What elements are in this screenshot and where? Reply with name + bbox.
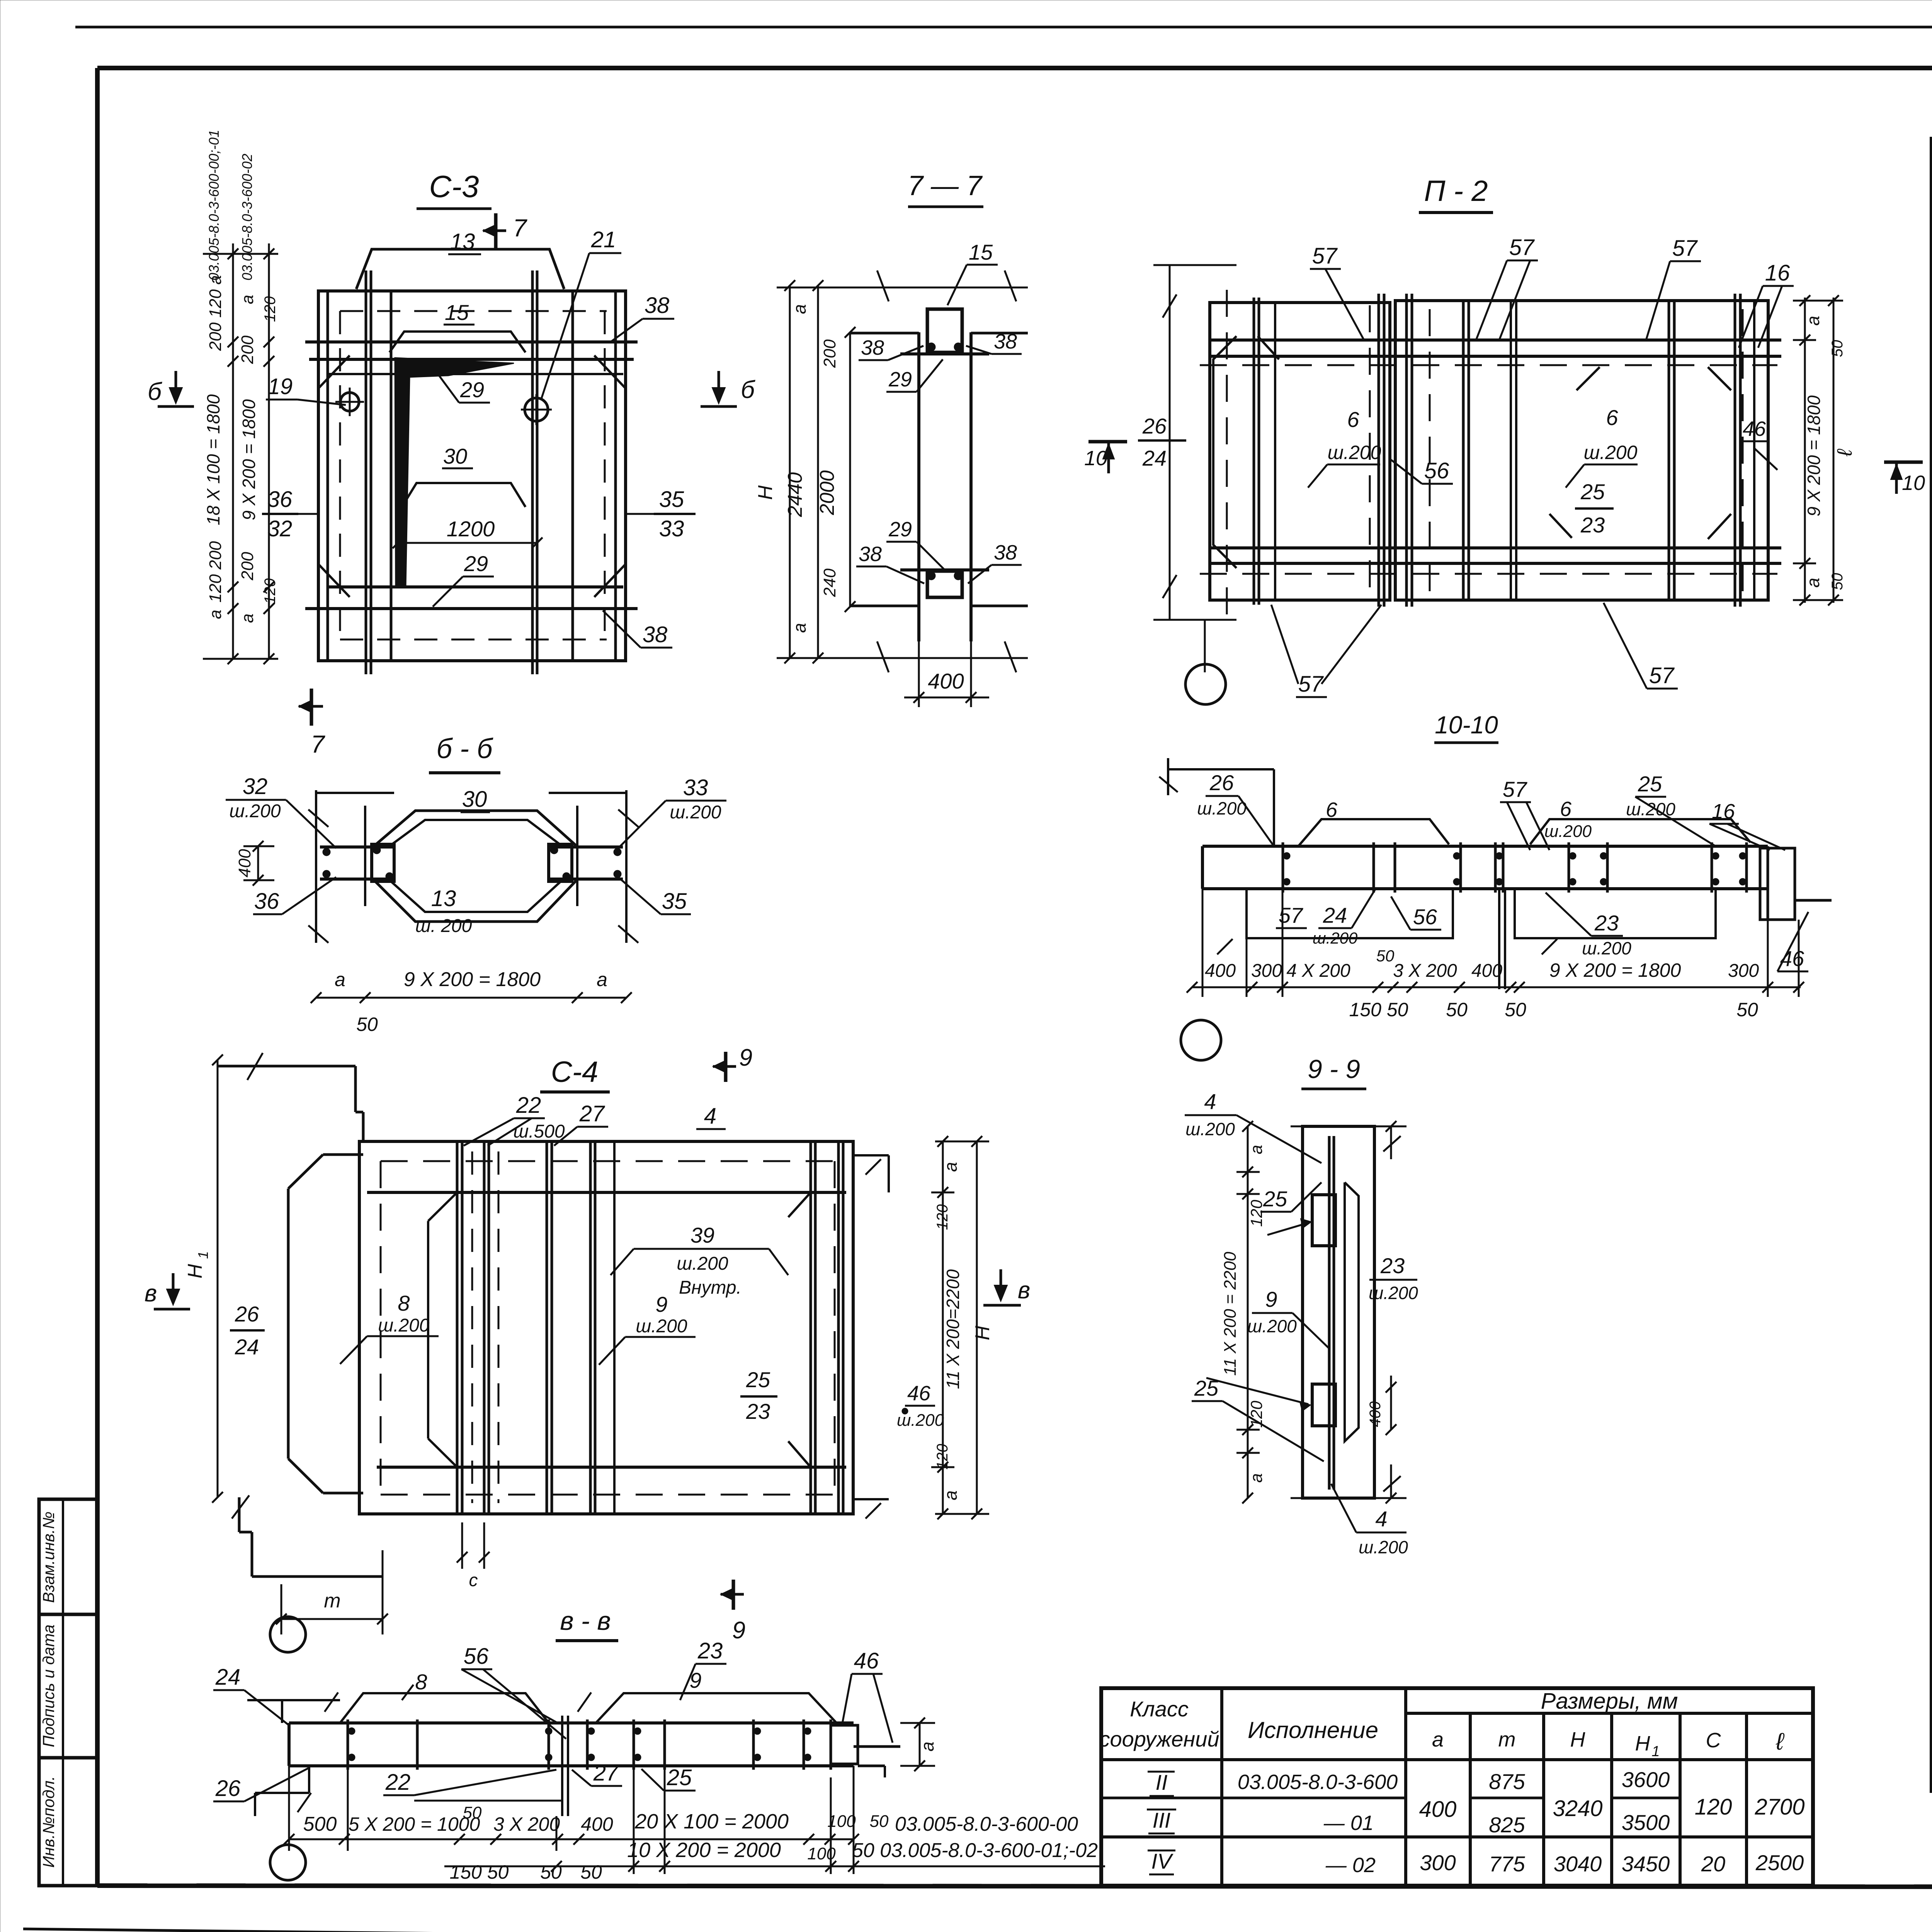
svg-text:3240: 3240 <box>1553 1796 1602 1821</box>
svg-text:29: 29 <box>888 368 912 391</box>
C-4 H1 dim line <box>184 1054 223 1503</box>
svg-text:2000: 2000 <box>816 470 838 515</box>
8-8 band outline <box>289 1723 854 1766</box>
7-7 left dim line H <box>754 280 795 663</box>
8-8 pos label 46 <box>842 1648 893 1743</box>
C-4 section mark 9 top <box>713 1044 752 1082</box>
svg-text:а: а <box>940 1162 961 1172</box>
10-10 vertical rebars <box>1283 842 1747 893</box>
9-9 right dim bottom <box>1374 1464 1406 1503</box>
svg-text:10: 10 <box>1084 447 1107 470</box>
svg-text:35: 35 <box>662 889 687 914</box>
8-8 dim line 1 texts <box>303 1803 1078 1835</box>
P-2 pos label 46 right <box>1740 417 1777 470</box>
svg-text:200: 200 <box>238 552 257 581</box>
P-2 bottom circle <box>1185 664 1226 704</box>
C-3 pos label 21 <box>541 227 621 400</box>
view P-2 title <box>1419 175 1493 213</box>
svg-text:а: а <box>789 623 810 633</box>
svg-text:ш.200: ш.200 <box>378 1315 430 1336</box>
view C-4 title <box>540 1056 610 1092</box>
svg-text:57: 57 <box>1509 235 1535 260</box>
C-3 pos label 29 upper <box>433 367 490 403</box>
svg-text:57: 57 <box>1312 243 1338 269</box>
svg-text:29: 29 <box>460 378 484 402</box>
svg-text:50: 50 <box>540 1861 562 1883</box>
10-10 label 46 <box>1777 912 1808 971</box>
C-4 bottom right step <box>853 1499 889 1519</box>
svg-text:15: 15 <box>969 240 993 264</box>
svg-text:1200: 1200 <box>447 517 495 541</box>
svg-text:2440: 2440 <box>784 472 806 517</box>
svg-text:50: 50 <box>356 1014 378 1035</box>
svg-text:25: 25 <box>1580 480 1605 504</box>
svg-text:27: 27 <box>579 1101 605 1126</box>
C-4 left top staircase <box>218 1053 363 1143</box>
C-4 left end wall hexagon <box>288 1155 363 1493</box>
svg-text:38: 38 <box>859 543 882 566</box>
10-10 left vertical chain <box>1202 889 1799 997</box>
P-2 pos label 57 bottom left <box>1271 605 1381 697</box>
9-9 label 9 sh200 <box>1247 1287 1329 1349</box>
svg-text:50 03.005-8.0-3-600-01;-02: 50 03.005-8.0-3-600-01;-02 <box>852 1839 1098 1862</box>
C-3 side wall inner verticals <box>328 291 616 661</box>
svg-text:19: 19 <box>268 374 293 399</box>
svg-text:50: 50 <box>1829 340 1846 357</box>
svg-text:3 Х 200: 3 Х 200 <box>493 1813 560 1835</box>
10-10 mid labels 57 24 56 <box>1276 889 1441 947</box>
svg-text:24: 24 <box>1323 903 1347 927</box>
svg-text:25: 25 <box>667 1765 692 1790</box>
svg-text:38: 38 <box>994 330 1017 353</box>
svg-text:3500: 3500 <box>1622 1810 1670 1835</box>
C-4 vertical rebar group left <box>457 1141 489 1514</box>
svg-text:ш.200: ш.200 <box>1313 929 1358 947</box>
P-2 left dashed verticals <box>1227 290 1370 614</box>
C-3 pos label 29 lower <box>433 551 494 607</box>
C-3 fraction 36/32 <box>262 487 318 541</box>
size table row III <box>1147 1808 1670 1837</box>
10-10 top-left connection <box>1159 758 1274 846</box>
svg-text:Н: Н <box>1635 1732 1651 1755</box>
C-4 pos label 4 top <box>696 1104 726 1129</box>
6-6 central hexagon 13 bottom <box>373 879 578 922</box>
svg-text:8: 8 <box>398 1291 410 1315</box>
svg-text:С-3: С-3 <box>429 169 479 204</box>
C-4 label 8 sh200 <box>340 1291 439 1364</box>
svg-text:120 200: 120 200 <box>206 541 225 603</box>
svg-text:30: 30 <box>462 787 487 812</box>
view 8-8 title <box>556 1606 618 1641</box>
svg-text:26: 26 <box>1142 414 1167 438</box>
9-9 label 4 sh200 top <box>1185 1089 1321 1163</box>
P-2 section mark 10 left <box>1084 442 1127 473</box>
size table row IV <box>1148 1849 1804 1877</box>
svg-text:ш.200: ш.200 <box>1247 1316 1297 1336</box>
svg-text:1: 1 <box>195 1251 211 1259</box>
8-8 pos label 27 <box>572 1760 622 1786</box>
svg-text:29: 29 <box>888 518 912 541</box>
svg-text:ш.200: ш.200 <box>677 1253 728 1274</box>
svg-text:ш.200: ш.200 <box>1185 1119 1235 1139</box>
8-8 dim line 2 texts <box>450 1838 1098 1883</box>
svg-text:20 Х 100 = 2000: 20 Х 100 = 2000 <box>634 1810 789 1833</box>
svg-text:38: 38 <box>861 336 884 359</box>
P-2 right slab rect <box>1395 301 1768 600</box>
C-4 left chamfer hexagon <box>428 1192 457 1467</box>
7-7 bottom dim line with breaks <box>777 641 1028 672</box>
P-2 section mark 10 right <box>1884 462 1925 495</box>
6-6 left broken verticals <box>308 790 365 943</box>
svg-text:39: 39 <box>690 1223 714 1247</box>
9-9 label 4 sh200 bottom <box>1331 1484 1408 1557</box>
P-2 pos label 57 top2 <box>1476 235 1538 340</box>
svg-text:9 - 9: 9 - 9 <box>1308 1054 1360 1084</box>
6-6 pos label 36 <box>253 877 336 914</box>
svg-text:а: а <box>238 295 257 304</box>
C-3 dashed inner rect <box>340 311 607 639</box>
svg-text:775: 775 <box>1489 1852 1525 1876</box>
svg-text:400: 400 <box>1367 1401 1384 1427</box>
C-4 vertical dashed companions <box>472 1151 498 1503</box>
svg-text:50: 50 <box>1736 999 1758 1020</box>
svg-text:120: 120 <box>1695 1794 1732 1820</box>
left margin label Взам.инв.№ <box>39 1512 58 1603</box>
view C-3 title <box>417 169 492 209</box>
10-10 dim texts <box>1205 947 1759 981</box>
6-6 right broken verticals <box>577 790 638 943</box>
6-6 central hexagon 30 top <box>373 811 578 847</box>
svg-text:240: 240 <box>820 568 839 597</box>
8-8 trapezoid 9 <box>596 1668 837 1723</box>
svg-text:46: 46 <box>907 1382 931 1405</box>
7-7 pos label 38 tr <box>966 330 1022 354</box>
svg-text:в: в <box>1018 1277 1030 1304</box>
C-4 fraction 26/24 <box>230 1302 265 1359</box>
6-6 right bars <box>549 844 623 881</box>
C-3 vertical rebar pair left <box>366 270 391 674</box>
9-9 label 25 bottom <box>1192 1376 1324 1461</box>
svg-text:20: 20 <box>1701 1852 1725 1876</box>
C-3 plate circle 21 <box>521 394 552 425</box>
9-9 right dim top <box>1374 1121 1406 1159</box>
view 7-7 title <box>908 170 983 207</box>
svg-text:150 50: 150 50 <box>450 1861 509 1883</box>
svg-text:50: 50 <box>1829 573 1846 590</box>
svg-text:9: 9 <box>739 1044 752 1071</box>
svg-text:9 Х 200 = 1800: 9 Х 200 = 1800 <box>1549 959 1681 981</box>
svg-text:03.005-8.0-3-600-00: 03.005-8.0-3-600-00 <box>895 1813 1078 1835</box>
7-7 pos label 38 br <box>968 541 1022 583</box>
svg-text:Н: Н <box>1570 1728 1586 1751</box>
svg-text:03.005-8.0-3-600: 03.005-8.0-3-600 <box>1238 1770 1398 1794</box>
C-3 left dim chain ticks <box>228 248 274 664</box>
svg-text:03.005-8.0-3-600-02: 03.005-8.0-3-600-02 <box>239 154 255 281</box>
svg-text:16: 16 <box>1765 260 1790 286</box>
6-6 bottom dim line <box>311 968 632 1035</box>
C-3 pos label 19 <box>266 374 346 405</box>
svg-text:Класс: Класс <box>1130 1697 1189 1721</box>
svg-text:в - в: в - в <box>560 1606 611 1636</box>
P-2 fraction 26/24 left <box>1138 414 1186 470</box>
P-2 pos label 57 bottom right <box>1604 603 1678 689</box>
8-8 pos label 24 <box>213 1665 289 1725</box>
svg-text:46: 46 <box>854 1648 879 1673</box>
svg-text:а: а <box>1247 1145 1266 1154</box>
C-4 label 46 sh200 <box>897 1382 944 1430</box>
7-7 pos label 29 top <box>886 359 943 392</box>
8-8 bottom circle <box>270 1845 306 1880</box>
P-2 dashed verticals right rect <box>1430 309 1743 595</box>
svg-text:6: 6 <box>1347 407 1359 432</box>
svg-text:8: 8 <box>415 1670 427 1694</box>
C-3 left rotated doc number col 2 <box>239 154 255 281</box>
C-4 left bottom staircase <box>232 1495 383 1577</box>
svg-text:ш.200: ш.200 <box>636 1316 687 1337</box>
svg-text:3040: 3040 <box>1554 1852 1602 1876</box>
svg-text:120: 120 <box>262 578 279 604</box>
svg-text:22: 22 <box>516 1093 541 1118</box>
svg-text:50: 50 <box>580 1861 602 1883</box>
svg-text:56: 56 <box>1413 905 1437 929</box>
svg-text:ш.200: ш.200 <box>1584 442 1638 463</box>
svg-text:ш.200: ш.200 <box>229 801 281 821</box>
svg-text:ℓ: ℓ <box>1776 1728 1785 1755</box>
svg-text:13: 13 <box>431 886 456 911</box>
svg-text:Н: Н <box>754 485 777 500</box>
view 6-6 title <box>429 733 500 773</box>
svg-text:Подпись и дата: Подпись и дата <box>39 1624 58 1747</box>
8-8 pos label 25 <box>641 1765 696 1791</box>
sheet bottom edge line <box>23 1929 1932 1932</box>
P-2 pos label 16 top <box>1739 260 1794 348</box>
svg-text:50: 50 <box>870 1812 889 1831</box>
svg-text:7: 7 <box>311 730 325 758</box>
C-3 pos label 38 top right <box>611 293 674 342</box>
C-3 left dim chain lines <box>203 243 278 659</box>
8-8 pos label 26 <box>213 1768 309 1801</box>
svg-text:Исполнение: Исполнение <box>1248 1717 1378 1743</box>
C-4 label 9 sh200 <box>599 1292 696 1365</box>
C-3 pos label 38 bottom right <box>603 611 672 648</box>
svg-text:300: 300 <box>1728 961 1759 981</box>
8-8 pos label 23 <box>680 1638 726 1700</box>
9-9 right slanted bar 23 <box>1345 1182 1359 1441</box>
left margin box column <box>39 1499 97 1886</box>
svg-text:875: 875 <box>1489 1769 1525 1794</box>
size table row II <box>1148 1767 1670 1796</box>
C-4 top right step <box>853 1155 889 1192</box>
C-4 dashed inner rect <box>381 1161 835 1495</box>
8-8 break marks band <box>298 1692 591 1812</box>
svg-text:16: 16 <box>1712 800 1735 823</box>
svg-text:ш.200: ш.200 <box>1582 938 1631 958</box>
svg-text:400: 400 <box>1205 961 1236 981</box>
8-8 vertical rebars <box>348 1719 831 1770</box>
svg-text:120: 120 <box>934 1204 951 1230</box>
P-2 top rebar band <box>1211 340 1781 356</box>
7-7 pos label 29 bottom <box>886 518 947 572</box>
P-2 fraction 25/23 <box>1575 480 1614 537</box>
P-2 right dim chain <box>1793 295 1843 605</box>
svg-text:7 — 7: 7 — 7 <box>908 170 983 201</box>
svg-text:Взам.инв.№: Взам.инв.№ <box>39 1512 58 1603</box>
P-2 pos label 57 top1 <box>1310 243 1364 340</box>
8-8 right end detail <box>831 1725 900 1777</box>
P-2 right dim texts <box>1803 316 1856 590</box>
10-10 label 23 sh200 <box>1546 893 1631 958</box>
P-2 left slab rect <box>1210 303 1390 600</box>
svg-text:26: 26 <box>1209 770 1234 795</box>
C-3 section mark b right <box>701 371 755 406</box>
svg-text:5 Х 200 = 1000: 5 Х 200 = 1000 <box>349 1813 480 1835</box>
7-7 slab edge lines top <box>850 332 1028 335</box>
svg-text:38: 38 <box>645 293 670 318</box>
svg-text:29: 29 <box>464 551 488 576</box>
svg-text:а: а <box>1247 1473 1266 1483</box>
P-2 top dashed line <box>1200 364 1777 366</box>
svg-text:а: а <box>206 610 225 619</box>
svg-text:III: III <box>1153 1808 1171 1832</box>
10-10 top labels 57 6 25 16 <box>1500 772 1785 850</box>
9-9 bottom hatch box <box>1312 1384 1335 1426</box>
svg-text:23: 23 <box>1380 1253 1405 1278</box>
svg-text:IV: IV <box>1151 1849 1174 1873</box>
P-2 label 6 sh200 left <box>1308 407 1381 488</box>
view 9-9 title <box>1301 1054 1366 1089</box>
P-2 verticals group 1 <box>1254 298 1275 605</box>
svg-text:36: 36 <box>267 487 293 512</box>
svg-text:100: 100 <box>827 1812 856 1831</box>
P-2 bottom rebar band <box>1211 548 1781 563</box>
svg-text:а: а <box>917 1742 937 1752</box>
svg-text:38: 38 <box>994 541 1017 564</box>
P-2 left broken dim line <box>1153 265 1236 672</box>
svg-text:4 Х 200: 4 Х 200 <box>1286 961 1350 981</box>
svg-text:ш. 200: ш. 200 <box>415 916 472 936</box>
svg-text:57: 57 <box>1298 672 1324 697</box>
8-8 dim line 1 <box>284 1834 859 1845</box>
svg-text:6: 6 <box>1326 798 1338 821</box>
svg-text:б - б: б - б <box>437 733 493 764</box>
svg-text:а: а <box>335 969 345 990</box>
6-6 pos label 33 sh200 <box>618 775 726 848</box>
svg-text:а: а <box>940 1490 961 1500</box>
svg-text:9: 9 <box>1265 1287 1277 1311</box>
svg-text:300: 300 <box>1251 961 1282 981</box>
7-7 dim labels bottom <box>789 568 839 633</box>
svg-text:сооружений: сооружений <box>1099 1727 1219 1751</box>
6-6 pos label 35 <box>618 877 691 914</box>
10-10 break mark left <box>1217 939 1557 954</box>
svg-text:23: 23 <box>746 1399 770 1423</box>
10-10 bottom circle <box>1181 1020 1221 1060</box>
size table sub headers <box>1432 1728 1785 1760</box>
C-3 section mark 7 bottom <box>299 689 325 758</box>
C-3 outer outline <box>318 291 626 661</box>
10-10 label 26 sh200 <box>1197 770 1274 846</box>
svg-text:100: 100 <box>807 1844 836 1863</box>
10-10 top chamfered outline 6 <box>1298 798 1449 846</box>
svg-text:26: 26 <box>235 1302 259 1326</box>
svg-text:03.005-8.0-3-600-00;-01: 03.005-8.0-3-600-00;-01 <box>206 130 222 281</box>
svg-text:57: 57 <box>1503 777 1527 801</box>
svg-text:С: С <box>1706 1729 1721 1752</box>
svg-text:а: а <box>789 304 810 314</box>
C-4 inner horizontals <box>367 1192 846 1467</box>
6-6 dim 400 left <box>235 841 274 886</box>
C-4 right dim chains <box>931 1136 989 1519</box>
svg-text:а: а <box>597 969 607 990</box>
svg-text:300: 300 <box>1420 1850 1456 1875</box>
svg-text:25: 25 <box>746 1367 770 1392</box>
10-10 top chamfered outline right <box>1530 819 1750 844</box>
svg-text:33: 33 <box>659 516 684 541</box>
svg-text:б: б <box>741 376 755 403</box>
svg-text:— 01: — 01 <box>1323 1811 1374 1835</box>
C-4 pos label 22 sh500 <box>464 1093 565 1146</box>
9-9 top hatch box <box>1312 1195 1335 1246</box>
svg-text:т: т <box>324 1590 340 1612</box>
svg-text:2500: 2500 <box>1755 1850 1804 1875</box>
svg-text:а: а <box>1803 316 1823 326</box>
svg-text:3 Х 200: 3 Х 200 <box>1393 961 1457 981</box>
8-8 top circle <box>270 1617 306 1652</box>
10-10 rebar dots <box>1284 853 1746 859</box>
C-3 weld wedge (filled) <box>395 358 514 587</box>
svg-text:ш.200: ш.200 <box>1544 822 1592 841</box>
C-4 vertical rebar group mid <box>547 1141 614 1514</box>
C-3 plate circle 19 <box>335 388 364 416</box>
C-3 left dim texts lower <box>206 541 279 623</box>
svg-text:ш.200: ш.200 <box>1197 798 1247 818</box>
svg-text:Внутр.: Внутр. <box>679 1277 742 1298</box>
svg-text:4: 4 <box>704 1104 716 1129</box>
7-7 pos label 38 tl <box>859 336 923 360</box>
svg-text:3600: 3600 <box>1622 1767 1670 1792</box>
svg-text:56: 56 <box>1424 458 1449 483</box>
svg-text:150 50: 150 50 <box>1349 999 1408 1020</box>
svg-text:9: 9 <box>732 1617 745 1644</box>
svg-text:ш.200: ш.200 <box>1328 442 1381 463</box>
svg-text:200: 200 <box>238 335 257 364</box>
P-2 pos label 57 top3 <box>1646 236 1701 340</box>
svg-text:10: 10 <box>1902 471 1925 495</box>
svg-text:в: в <box>145 1280 157 1307</box>
svg-text:46: 46 <box>1743 417 1766 440</box>
size table grid <box>1101 1688 1813 1886</box>
size table header Исполнение <box>1248 1717 1378 1743</box>
9-9 right dim 400 <box>1367 1376 1406 1435</box>
svg-text:ш.200: ш.200 <box>1369 1283 1418 1303</box>
svg-text:36: 36 <box>254 889 279 914</box>
C-3 section mark b left <box>148 371 194 406</box>
svg-text:120: 120 <box>1247 1400 1265 1428</box>
svg-text:23: 23 <box>1594 911 1619 935</box>
svg-text:18 Х 100 = 1800: 18 Х 100 = 1800 <box>203 394 223 525</box>
svg-text:II: II <box>1155 1770 1167 1794</box>
svg-text:24: 24 <box>235 1335 259 1359</box>
svg-text:4: 4 <box>1375 1507 1387 1531</box>
svg-text:11 Х 200 = 2200: 11 Х 200 = 2200 <box>1221 1252 1240 1376</box>
10-10 band outline <box>1202 846 1768 889</box>
8-8 dim chain verticals <box>289 1766 854 1874</box>
svg-text:24: 24 <box>215 1665 241 1690</box>
svg-text:32: 32 <box>267 516 293 541</box>
8-8 pos label 56 <box>461 1644 566 1739</box>
svg-text:Н: Н <box>184 1264 206 1279</box>
svg-text:30: 30 <box>443 444 467 468</box>
